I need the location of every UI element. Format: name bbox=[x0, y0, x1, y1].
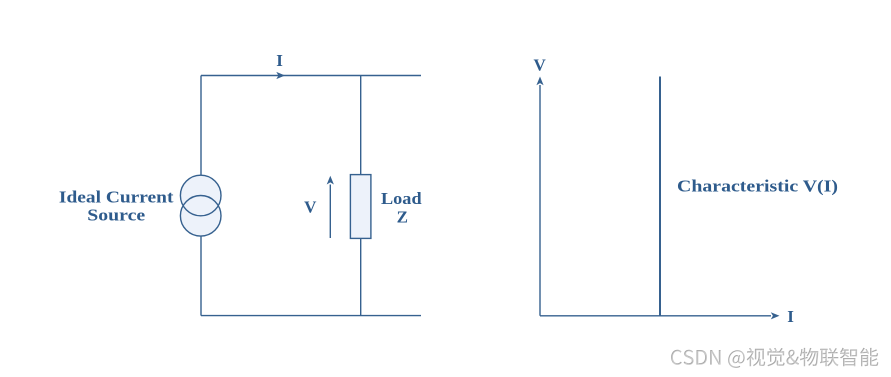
characteristic V(I) line bbox=[659, 77, 661, 316]
wire bottom horizontal bbox=[201, 315, 421, 317]
wire load branch upper bbox=[360, 76, 362, 175]
wire left vertical upper bbox=[200, 76, 202, 176]
svg-text:Load: Load bbox=[381, 189, 422, 208]
load impedance Z (rectangle) bbox=[350, 175, 371, 239]
voltage arrow V across load bbox=[327, 176, 334, 238]
svg-text:V: V bbox=[534, 56, 547, 75]
current arrow I on top wire bbox=[276, 72, 285, 79]
svg-text:I: I bbox=[787, 307, 794, 326]
svg-text:Characteristic V(I): Characteristic V(I) bbox=[677, 177, 838, 196]
svg-text:Ideal Current: Ideal Current bbox=[59, 188, 174, 207]
wire left vertical lower bbox=[200, 236, 202, 316]
I axis (graph abscissa) bbox=[540, 312, 780, 319]
wire top horizontal bbox=[201, 75, 421, 77]
V axis (graph ordinate) bbox=[536, 77, 543, 316]
wire load branch lower bbox=[360, 238, 362, 315]
svg-text:I: I bbox=[276, 51, 283, 70]
svg-text:Source: Source bbox=[87, 205, 145, 224]
svg-text:Z: Z bbox=[397, 207, 408, 226]
svg-text:V: V bbox=[304, 197, 317, 216]
current source CS1 (ideal current source symbol) bbox=[180, 175, 221, 236]
